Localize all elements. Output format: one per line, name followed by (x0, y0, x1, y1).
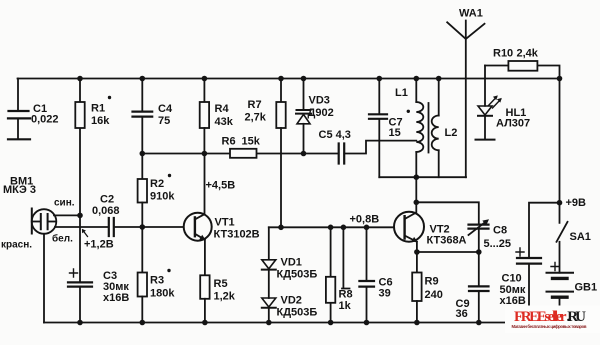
svg-text:R4: R4 (215, 103, 230, 115)
svg-text:SA1: SA1 (570, 231, 591, 243)
svg-text:АЛ307: АЛ307 (496, 117, 530, 129)
svg-text:1k: 1k (339, 300, 352, 312)
wire coil bottoms to antenna (379, 176, 466, 178)
wire emitter to C8/C9 (417, 251, 479, 253)
svg-text:R5: R5 (214, 278, 228, 290)
wire mic white lead (55, 226, 109, 228)
capacitor C4 (133, 79, 173, 180)
stub test point (342, 227, 350, 288)
svg-text:43k: 43k (215, 116, 234, 128)
svg-text:L1: L1 (395, 87, 408, 99)
svg-text:МКЭ 3: МКЭ 3 (3, 184, 36, 196)
svg-text:R1: R1 (91, 103, 105, 115)
svg-text:R2: R2 (150, 178, 164, 190)
resistor R8 (326, 227, 353, 322)
node C8/C9 junction (476, 249, 482, 255)
wire top rail (18, 78, 560, 80)
svg-text:R9: R9 (425, 276, 439, 288)
svg-text:50мк: 50мк (500, 284, 526, 296)
wire R1 node down to C3 (79, 215, 81, 282)
resistor R4 (200, 79, 234, 154)
junction dots bottom rail (77, 320, 481, 326)
svg-text:C8: C8 (493, 224, 507, 236)
capacitor C5 (304, 129, 417, 164)
svg-text:75: 75 (158, 115, 170, 127)
svg-text:VD1: VD1 (281, 257, 302, 269)
diode VD2 (262, 295, 318, 323)
svg-text:15: 15 (389, 127, 401, 139)
wire L1 bottom to VT2 collector (415, 177, 417, 202)
svg-text:+0,8В: +0,8В (350, 214, 380, 226)
resistor R3 (138, 227, 176, 323)
wire to C10 (529, 203, 560, 258)
svg-text:х16В: х16В (103, 292, 129, 304)
switch SA1 (557, 222, 591, 273)
svg-text:L2: L2 (445, 127, 458, 139)
svg-text:5...25: 5...25 (484, 238, 512, 250)
diode VD1 (262, 227, 318, 298)
junction dots top rail (77, 76, 562, 82)
LED HL1 (476, 66, 531, 140)
capacitor C2 (92, 194, 195, 237)
resistor R7 (245, 79, 286, 228)
resistor R5 (200, 275, 236, 322)
trimmer capacitor C8 (469, 219, 512, 286)
svg-text:VD2: VD2 (281, 295, 302, 307)
svg-text:FREEseller: FREEseller (514, 309, 567, 325)
svg-text:2,7k: 2,7k (245, 111, 267, 123)
antenna WA1 (447, 8, 484, 178)
svg-text:0,068: 0,068 (92, 205, 120, 217)
resistor R9 (412, 252, 443, 323)
svg-text:Магазин бесплатных цифровых то: Магазин бесплатных цифровых товаров (512, 324, 587, 329)
svg-text:R3: R3 (150, 275, 164, 287)
svg-text:16k: 16k (91, 115, 110, 127)
svg-text:R7: R7 (248, 99, 262, 111)
node +9B junction (557, 200, 563, 206)
svg-text:36: 36 (456, 308, 468, 320)
capacitor C3 (68, 269, 129, 323)
resistor R1 (75, 79, 111, 216)
transformer core (428, 103, 430, 153)
svg-text:син.: син. (54, 198, 75, 209)
junction dots mid (140, 151, 370, 230)
svg-text:C10: C10 (502, 273, 522, 285)
svg-text:910k: 910k (150, 190, 175, 202)
node collector junction (414, 200, 420, 206)
svg-text:КТ368А: КТ368А (427, 234, 467, 246)
wire VD1 node row to VT2 base (269, 226, 405, 228)
wire R6 row (142, 153, 303, 155)
svg-text:C2: C2 (100, 194, 114, 206)
capacitor C6 (359, 227, 392, 322)
node L1 bottom junction (414, 174, 420, 180)
svg-text:.RU: .RU (567, 309, 587, 325)
svg-text:Д902: Д902 (308, 107, 334, 119)
svg-text:GB1: GB1 (575, 282, 598, 294)
capacitor C9 (456, 286, 489, 322)
svg-text:КД503Б: КД503Б (277, 269, 318, 281)
node VT2 emitter junction (414, 249, 420, 255)
transistor VT2 (394, 202, 467, 252)
capacitor C10 (500, 248, 542, 312)
svg-text:15k: 15k (242, 136, 261, 148)
svg-text:КД503Б: КД503Б (277, 307, 318, 319)
svg-text:R10: R10 (493, 48, 513, 60)
svg-text:х16В: х16В (500, 295, 526, 307)
svg-text:39: 39 (379, 287, 391, 299)
svg-text:0,022: 0,022 (31, 114, 59, 126)
svg-text:180k: 180k (150, 288, 175, 300)
inductor L2 (432, 79, 458, 178)
svg-text:красн.: красн. (1, 240, 32, 251)
wire collector row to C8 (416, 202, 479, 224)
logo FREEseller.RU (505, 306, 600, 334)
wire bottom rail (44, 322, 506, 324)
svg-text:WA1: WA1 (459, 8, 483, 20)
capacitor C1 (8, 79, 59, 140)
wire mic blue lead to node (54, 214, 80, 216)
svg-text:240: 240 (425, 289, 443, 301)
svg-text:+1,2В: +1,2В (84, 239, 114, 251)
svg-text:VD3: VD3 (309, 94, 330, 106)
svg-text:1,2k: 1,2k (214, 291, 236, 303)
resistor R10 (485, 48, 560, 79)
svg-text:VT1: VT1 (215, 217, 235, 229)
wire right rail (559, 79, 561, 223)
svg-text:КТ3102В: КТ3102В (214, 229, 260, 241)
node R1/mic junction (77, 213, 83, 219)
svg-text:+9В: +9В (566, 197, 587, 209)
inductor L1 (395, 79, 423, 178)
svg-text:R6: R6 (222, 136, 236, 148)
svg-text:2,4k: 2,4k (517, 48, 539, 60)
svg-text:R8: R8 (339, 289, 353, 301)
svg-text:C4: C4 (158, 103, 173, 115)
capacitor C7 (369, 79, 403, 178)
svg-text:бел.: бел. (52, 233, 73, 245)
microphone BM1 (1, 176, 75, 251)
wire mic ground lead (43, 234, 45, 323)
label +1,2B with arrow (82, 229, 114, 251)
battery GB1 (547, 263, 598, 313)
svg-text:C5 4,3: C5 4,3 (319, 129, 351, 141)
resistor R2 (138, 174, 176, 227)
transistor VT1 (184, 154, 260, 276)
resistor R6 (222, 136, 261, 158)
svg-text:+4,5В: +4,5В (206, 180, 236, 192)
varicap VD3 (296, 79, 334, 154)
